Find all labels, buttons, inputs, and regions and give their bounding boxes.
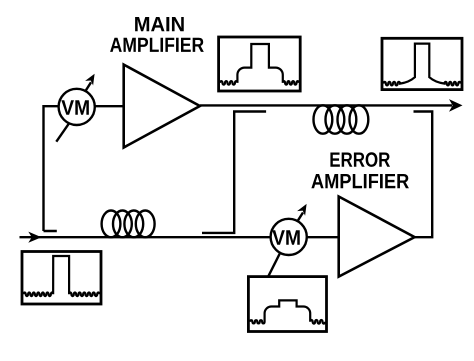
VM1 control stub [56,124,69,142]
vector modulator VM2 circle [268,204,307,277]
coupler: error re-injection bracket (right) [414,112,433,238]
label: MAIN AMPLIFIER [135,17,184,31]
VM1 adjustment arrow [86,82,91,90]
label: ERROR AMPLIFIER [330,152,390,167]
wire: VM1 output to main amplifier input [94,105,124,107]
wire: bottom input line from input arrow to error amplifier [20,236,339,238]
wire: VM1 branch with input coupler foot [44,106,60,231]
error amplifier triangle [339,197,415,277]
delay line coil L1 (top line) [314,105,369,133]
VM2 control line to error-spectrum box [268,253,280,277]
main amplifier triangle [124,65,200,148]
spectrum box 4 (error signal: shoulders only) [248,277,326,332]
label: VM1 text [61,100,88,114]
coupler: main-output sampling bracket (center) [202,112,266,233]
wire: main output line from main amplifier apex to output arrow [200,104,452,106]
spectrum box 1 (main amp output: carrier with distortion shoulders) [219,37,301,91]
spectrum box 3 (input: clean carrier) [22,252,101,305]
delay line coil L2 (bottom line) [102,211,155,238]
input arrowhead [28,232,41,243]
spectrum box 2 (final output: clean carrier) [382,38,462,89]
vector modulator VM1 circle [56,74,95,142]
output arrowhead [449,99,463,112]
VM2 adjustment arrow [298,213,303,221]
label: VM2 text [272,230,299,244]
